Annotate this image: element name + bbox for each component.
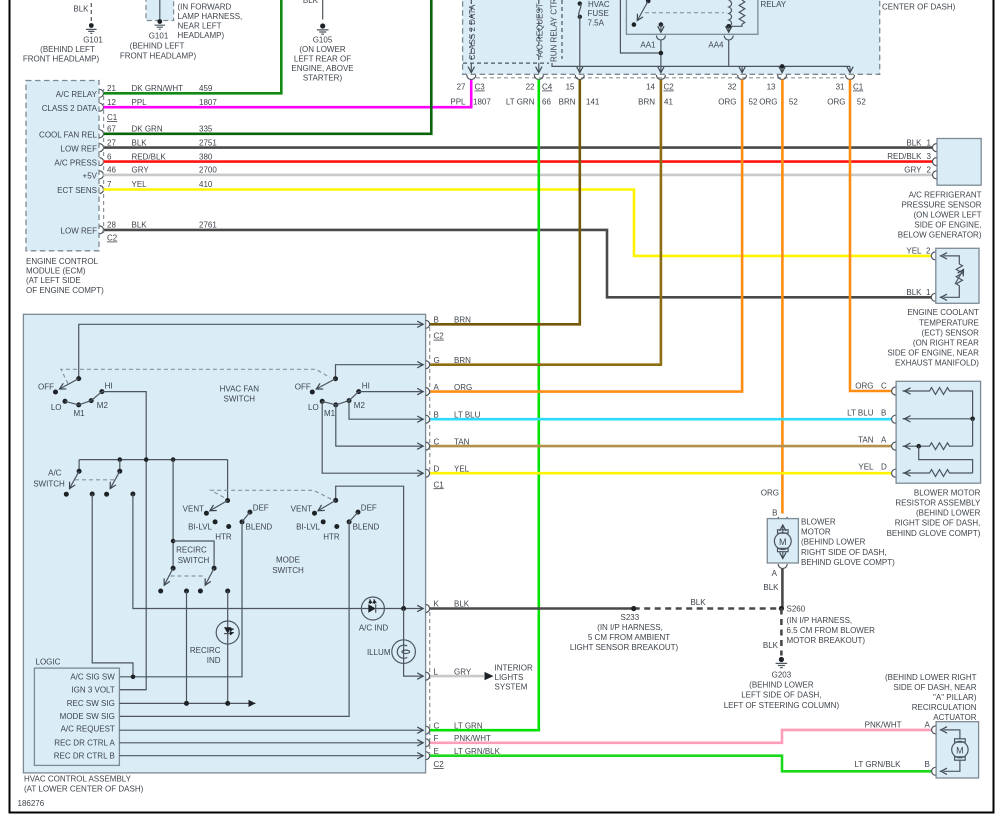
svg-text:66: 66 — [542, 98, 551, 107]
wire GRY 2700 (ECM pin 46 to pressure sensor pin 2) — [104, 174, 933, 177]
svg-text:IND: IND — [207, 656, 221, 665]
svg-text:ILLUM: ILLUM — [367, 648, 391, 657]
wire AA1 to pin 14 (with feed elbow from above) — [620, 0, 663, 73]
svg-text:BLEND: BLEND — [246, 523, 273, 532]
svg-text:22: 22 — [526, 83, 535, 92]
svg-text:15: 15 — [566, 83, 575, 92]
svg-text:SIDE OF ENGINE,: SIDE OF ENGINE, — [914, 221, 981, 230]
svg-text:L: L — [434, 667, 439, 676]
svg-text:32: 32 — [728, 83, 737, 92]
recirc switch — [158, 546, 230, 594]
svg-text:12: 12 — [107, 98, 116, 107]
svg-text:C4: C4 — [542, 83, 553, 92]
svg-text:A/C REQUEST: A/C REQUEST — [61, 725, 115, 734]
recirc indicator lamp — [190, 621, 239, 665]
svg-text:HI: HI — [105, 382, 113, 391]
svg-text:SIDE OF ENGINE, NEAR: SIDE OF ENGINE, NEAR — [887, 349, 979, 358]
svg-text:A/C IND: A/C IND — [359, 624, 389, 633]
svg-text:(BEHIND LOWER: (BEHIND LOWER — [749, 681, 814, 690]
splice S233 — [570, 606, 679, 652]
net CLASS 2 DATA (dashed lead and label) — [468, 0, 477, 73]
svg-text:BI-LVL: BI-LVL — [296, 523, 320, 532]
svg-text:BLK: BLK — [690, 598, 706, 607]
wire DK GRN 335 (ECM pin 67 to top) — [104, 0, 432, 134]
svg-text:1: 1 — [926, 288, 931, 297]
A/C switch — [33, 460, 135, 497]
svg-text:REC DR CTRL A: REC DR CTRL A — [54, 738, 115, 747]
svg-text:SIDE OF DASH, NEAR: SIDE OF DASH, NEAR — [893, 683, 976, 692]
svg-text:C1: C1 — [434, 480, 445, 489]
recirc switch feed — [171, 460, 214, 569]
wire TAN (HVAC pin C to resistor pin A) — [430, 445, 892, 448]
A/C switch contact to A/C indicator row (pin K) — [133, 494, 423, 609]
svg-text:GRY: GRY — [454, 667, 472, 676]
fan switch 2 M1 to pin C — [336, 405, 423, 446]
svg-text:1: 1 — [927, 138, 932, 147]
svg-text:6.5 CM FROM BLOWER: 6.5 CM FROM BLOWER — [787, 626, 876, 635]
connector bump AA1 — [656, 36, 665, 41]
svg-text:C2: C2 — [434, 760, 445, 769]
svg-text:+5V: +5V — [83, 172, 98, 181]
svg-text:A/C REQUEST: A/C REQUEST — [536, 3, 545, 57]
svg-text:FRONT HEADLAMP): FRONT HEADLAMP) — [23, 55, 100, 64]
svg-text:D: D — [881, 463, 887, 472]
fan switch gang dashed link — [61, 369, 330, 384]
ECT internal wiring and thermistor — [944, 256, 960, 264]
svg-text:ACTUATOR: ACTUATOR — [933, 713, 976, 722]
svg-text:52: 52 — [789, 98, 798, 107]
wire BLK 2761 (ECM pin 28 to ECT sensor pin 1) — [104, 230, 932, 297]
svg-text:SWITCH: SWITCH — [178, 556, 210, 565]
svg-text:BLK: BLK — [73, 5, 89, 14]
fan switch 2 M2 to pin B — [349, 401, 423, 420]
svg-text:BEHIND GLOVE COMPT): BEHIND GLOVE COMPT) — [887, 529, 981, 538]
svg-text:ORG: ORG — [454, 383, 472, 392]
run relay ctrl bus to pins 32 13 31 — [552, 63, 850, 73]
svg-text:(IN FORWARD: (IN FORWARD — [178, 3, 232, 12]
ground G203 — [724, 657, 840, 710]
svg-text:IGN 3 VOLT: IGN 3 VOLT — [71, 685, 115, 694]
wire ORG 52 (pin 32 to HVAC pin A) — [430, 80, 742, 392]
svg-text:M2: M2 — [354, 401, 366, 410]
svg-text:RELAY: RELAY — [761, 0, 787, 9]
LOGIC box — [34, 658, 119, 766]
ground G105 — [291, 0, 353, 83]
svg-text:FRONT HEADLAMP): FRONT HEADLAMP) — [120, 52, 197, 61]
svg-text:LT BLU: LT BLU — [454, 410, 481, 419]
wire YEL 410 (ECM pin 7 to ECT sensor pin 2) — [104, 190, 932, 256]
svg-text:LIGHT SENSOR BREAKOUT): LIGHT SENSOR BREAKOUT) — [570, 643, 679, 652]
svg-text:SWITCH: SWITCH — [224, 395, 256, 404]
svg-text:CENTER OF DASH): CENTER OF DASH) — [882, 3, 956, 12]
svg-text:HVAC FAN: HVAC FAN — [220, 384, 260, 393]
svg-text:S233: S233 — [621, 613, 640, 622]
svg-text:AA4: AA4 — [708, 41, 724, 50]
svg-text:LT GRN: LT GRN — [454, 721, 483, 730]
svg-text:141: 141 — [586, 98, 600, 107]
blower motor resistor assembly box — [847, 381, 981, 538]
svg-text:RED/BLK: RED/BLK — [132, 152, 167, 161]
svg-text:FUSE: FUSE — [588, 9, 609, 18]
fuse HVAC FUSE 7.5A — [578, 0, 610, 28]
svg-text:G: G — [434, 356, 440, 365]
relay actuation dashed link — [645, 12, 724, 14]
splice S260 — [779, 605, 875, 645]
svg-text:C: C — [881, 381, 887, 390]
svg-text:1807: 1807 — [199, 98, 217, 107]
mode switch 1 BLEND output to A/C SIG SW — [120, 522, 242, 677]
svg-text:7.5A: 7.5A — [588, 19, 605, 28]
fuse block pin bumps — [467, 75, 855, 80]
A/C indicator lamp — [359, 597, 389, 633]
mode switch 2 feed from K row junction — [336, 486, 404, 608]
svg-text:NEAR LEFT: NEAR LEFT — [178, 22, 222, 31]
svg-text:21: 21 — [107, 84, 116, 93]
fuse block connector face dashed line — [476, 77, 846, 79]
svg-text:YEL: YEL — [906, 247, 922, 256]
svg-text:C1: C1 — [107, 113, 118, 122]
svg-text:CLASS 2 DATA: CLASS 2 DATA — [42, 104, 98, 113]
ECM connector face dashed line — [103, 89, 105, 235]
svg-text:LOW REF: LOW REF — [61, 227, 98, 236]
svg-text:ORG: ORG — [759, 98, 777, 107]
svg-text:(IN I/P HARNESS,: (IN I/P HARNESS, — [597, 623, 663, 632]
svg-text:BLK: BLK — [303, 0, 319, 5]
svg-text:INTERIOR: INTERIOR — [495, 663, 533, 672]
svg-text:C3: C3 — [475, 83, 486, 92]
blower motor — [761, 489, 895, 593]
wire BLK dashed (S260 to G203) — [780, 609, 783, 656]
svg-text:LOGIC: LOGIC — [36, 658, 61, 667]
svg-text:BRN: BRN — [559, 98, 576, 107]
fan switch 2 — [295, 376, 370, 418]
svg-text:OFF: OFF — [295, 382, 311, 391]
ECM connector box — [26, 81, 104, 295]
svg-text:PNK/WHT: PNK/WHT — [454, 734, 491, 743]
svg-text:RIGHT SIDE OF DASH,: RIGHT SIDE OF DASH, — [895, 519, 981, 528]
wire LT GRN/BLK (HVAC pin E to recirculation actuator pin B) — [430, 756, 932, 772]
svg-text:46: 46 — [107, 166, 116, 175]
svg-text:RECIRCULATION: RECIRCULATION — [912, 703, 977, 712]
svg-text:BLK: BLK — [763, 641, 779, 650]
svg-text:MODE: MODE — [276, 556, 300, 565]
REC DR CTRL A row to pin F — [119, 742, 423, 744]
svg-text:G105: G105 — [313, 36, 333, 45]
svg-text:ENGINE CONTROL: ENGINE CONTROL — [26, 257, 99, 266]
svg-text:B: B — [772, 509, 777, 518]
wire PPL 1807 (ECM pin 12 to C3 pin 27) — [104, 80, 472, 108]
svg-text:14: 14 — [646, 83, 655, 92]
ground G101 (left) — [23, 3, 103, 64]
fan switch 1 — [38, 376, 113, 418]
svg-text:(BEHIND LOWER: (BEHIND LOWER — [916, 509, 981, 518]
svg-text:52: 52 — [857, 98, 866, 107]
svg-text:"A" PILLAR): "A" PILLAR) — [933, 693, 977, 702]
svg-text:YEL: YEL — [858, 463, 874, 472]
wire BRN 41 (pin 14 to HVAC pin G) — [430, 80, 661, 365]
svg-text:M: M — [956, 745, 964, 755]
svg-text:27: 27 — [457, 83, 466, 92]
svg-text:VENT: VENT — [291, 505, 312, 514]
fan switch 2 feed wire (pin G row) — [336, 365, 424, 379]
svg-text:BRN: BRN — [454, 316, 471, 325]
inner dashed partition (data link region) — [463, 62, 549, 64]
REC SW SIG row with arrow — [119, 701, 255, 706]
svg-text:A/C RELAY: A/C RELAY — [56, 90, 98, 99]
svg-text:B: B — [881, 409, 886, 418]
svg-text:410: 410 — [199, 180, 213, 189]
ground G101 (in forward lamp harness) — [120, 0, 242, 61]
wire L GRY to interior lights system — [430, 663, 533, 691]
relay switch output to AA1 — [660, 25, 662, 33]
net A/C REQUEST (dashed lead and label) — [536, 0, 545, 73]
svg-text:LT GRN/BLK: LT GRN/BLK — [855, 760, 902, 769]
svg-text:2751: 2751 — [199, 138, 217, 147]
svg-text:HTR: HTR — [215, 533, 232, 542]
HVAC control assembly box — [23, 314, 425, 793]
svg-text:(ON LOWER LEFT: (ON LOWER LEFT — [913, 211, 981, 220]
wire AA4 down to run-relay bus — [728, 40, 730, 66]
svg-text:HTR: HTR — [323, 533, 340, 542]
svg-text:AA1: AA1 — [640, 41, 656, 50]
A/C REQUEST row to pin C — [119, 729, 423, 731]
svg-text:BLK: BLK — [132, 221, 148, 230]
wire LT BLU (HVAC pin B to resistor pin B) — [430, 418, 892, 421]
svg-text:OFF: OFF — [38, 382, 54, 391]
wire YEL (HVAC pin D to resistor pin D) — [430, 472, 892, 475]
svg-text:RESISTOR ASSEMBLY: RESISTOR ASSEMBLY — [895, 499, 981, 508]
svg-text:STARTER): STARTER) — [303, 74, 343, 83]
fan switch 1 feed wire (pin B row) — [79, 324, 424, 378]
relay coil — [726, 0, 744, 29]
svg-text:LEFT REAR OF: LEFT REAR OF — [294, 55, 351, 64]
mode switch 1 — [183, 498, 273, 542]
svg-text:380: 380 — [199, 152, 213, 161]
svg-text:BLOWER: BLOWER — [801, 518, 836, 527]
svg-text:BLEND: BLEND — [353, 523, 380, 532]
svg-text:MOTOR: MOTOR — [801, 528, 831, 537]
svg-text:BLK: BLK — [132, 138, 148, 147]
svg-text:RECIRC: RECIRC — [190, 646, 221, 655]
svg-text:SYSTEM: SYSTEM — [495, 683, 528, 692]
svg-text:M1: M1 — [73, 409, 85, 418]
resistor row A — [903, 443, 973, 450]
svg-text:B: B — [434, 316, 439, 325]
fan switch 1 HI output down to feed bus — [102, 392, 146, 690]
svg-text:DK GRN/WHT: DK GRN/WHT — [132, 84, 184, 93]
svg-text:31: 31 — [836, 83, 845, 92]
svg-text:LO: LO — [308, 403, 319, 412]
fan switch 2 HI to pin A — [359, 391, 424, 393]
resistor row D — [903, 470, 973, 477]
svg-text:LT GRN: LT GRN — [506, 98, 535, 107]
HVAC pin bumps right edge — [426, 320, 430, 759]
svg-text:B: B — [925, 760, 930, 769]
feed bus row — [79, 457, 228, 462]
svg-text:HVAC: HVAC — [588, 0, 610, 9]
svg-text:ORG: ORG — [761, 489, 779, 498]
svg-text:(BEHIND LOWER: (BEHIND LOWER — [801, 538, 866, 547]
wire PNK/WHT (HVAC pin F to recirculation actuator pin A) — [430, 730, 932, 743]
illumination lamp to pin L — [404, 663, 424, 676]
svg-text:(ON RIGHT REAR: (ON RIGHT REAR — [913, 339, 979, 348]
wire BLK dashed (S233 to S260) — [634, 607, 782, 610]
svg-text:A: A — [881, 436, 887, 445]
REC DR CTRL B row to pin E — [119, 755, 423, 757]
svg-text:BLK: BLK — [906, 138, 922, 147]
svg-text:TEMPERATURE: TEMPERATURE — [919, 318, 979, 327]
svg-text:5 CM FROM AMBIENT: 5 CM FROM AMBIENT — [588, 633, 670, 642]
svg-text:6: 6 — [107, 152, 112, 161]
svg-text:M1: M1 — [324, 409, 336, 418]
svg-text:A/C PRESS: A/C PRESS — [54, 158, 97, 167]
svg-text:67: 67 — [107, 125, 116, 134]
svg-text:S260: S260 — [787, 605, 806, 614]
svg-text:RUN RELAY CTRL: RUN RELAY CTRL — [550, 0, 559, 62]
svg-text:HEADLAMP): HEADLAMP) — [178, 31, 225, 40]
svg-text:PPL: PPL — [450, 98, 466, 107]
svg-text:MODE SW SIG: MODE SW SIG — [60, 712, 115, 721]
svg-text:CLASS 2 DATA: CLASS 2 DATA — [468, 4, 477, 60]
svg-text:LEFT SIDE OF DASH,: LEFT SIDE OF DASH, — [741, 691, 821, 700]
svg-text:A/C REFRIGERANT: A/C REFRIGERANT — [909, 190, 982, 199]
svg-text:LIGHTS: LIGHTS — [495, 673, 524, 682]
svg-text:BLK: BLK — [906, 288, 922, 297]
wire K row junction down to illumination lamp — [403, 609, 405, 642]
svg-text:2761: 2761 — [199, 221, 217, 230]
mode switch 2 — [291, 498, 380, 542]
svg-text:(AT LEFT SIDE: (AT LEFT SIDE — [26, 276, 81, 285]
junction on A/C indicator row — [401, 606, 406, 611]
svg-text:(BEHIND LEFT: (BEHIND LEFT — [40, 45, 95, 54]
svg-text:G101: G101 — [83, 36, 103, 45]
svg-text:A: A — [925, 720, 931, 729]
svg-text:DK GRN: DK GRN — [132, 125, 163, 134]
svg-text:RECIRC: RECIRC — [176, 546, 207, 555]
resistor row C — [903, 388, 973, 419]
svg-text:A/C SIG SW: A/C SIG SW — [70, 672, 115, 681]
ECM pin bumps — [100, 89, 104, 234]
svg-text:VENT: VENT — [183, 505, 204, 514]
svg-text:C2: C2 — [434, 332, 445, 341]
svg-text:ENGINE COOLANT: ENGINE COOLANT — [907, 308, 979, 317]
svg-text:RIGHT SIDE OF DASH,: RIGHT SIDE OF DASH, — [801, 548, 887, 557]
svg-text:LEFT OF STEERING COLUMN): LEFT OF STEERING COLUMN) — [724, 701, 840, 710]
connector bump AA4 — [724, 36, 733, 41]
svg-text:K: K — [434, 600, 440, 609]
svg-text:2: 2 — [927, 165, 932, 174]
svg-text:E: E — [434, 747, 439, 756]
svg-text:ORG: ORG — [718, 98, 736, 107]
svg-text:MOTOR BREAKOUT): MOTOR BREAKOUT) — [787, 636, 866, 645]
svg-text:G203: G203 — [772, 671, 792, 680]
svg-text:HI: HI — [362, 382, 370, 391]
svg-text:3: 3 — [927, 152, 932, 161]
svg-text:52: 52 — [749, 98, 758, 107]
wire LT GRN 66 (pin 22 to HVAC pin C) — [430, 80, 539, 731]
wire fuse output to pin 15 — [579, 17, 581, 73]
engine coolant temperature (ECT) sensor box — [887, 247, 979, 368]
svg-text:BLK: BLK — [763, 583, 779, 592]
svg-text:BRN: BRN — [638, 98, 655, 107]
svg-text:EXHAUST MANIFOLD): EXHAUST MANIFOLD) — [895, 359, 979, 368]
wire BLK 2751 (ECM pin 27 to pressure sensor pin 1) — [104, 146, 933, 149]
svg-text:D: D — [434, 464, 440, 473]
A/C refrigerant pressure sensor box — [887, 138, 982, 239]
svg-text:YEL: YEL — [454, 464, 470, 473]
svg-text:(BEHIND LEFT: (BEHIND LEFT — [130, 42, 185, 51]
wire ORG 52 (pin 31 to blower resistor pin C) — [850, 80, 892, 392]
wire ORG 52 (pin 13 to blower motor pin B) — [781, 80, 784, 514]
svg-text:13: 13 — [767, 83, 776, 92]
svg-text:C2: C2 — [107, 234, 118, 243]
HVAC pin letter and wire labels — [434, 316, 501, 770]
svg-text:BI-LVL: BI-LVL — [188, 523, 212, 532]
svg-text:LT BLU: LT BLU — [847, 409, 874, 418]
svg-text:(BEHIND LOWER RIGHT: (BEHIND LOWER RIGHT — [885, 673, 977, 682]
svg-text:YEL: YEL — [132, 180, 148, 189]
svg-text:41: 41 — [664, 98, 673, 107]
svg-text:M2: M2 — [97, 401, 109, 410]
svg-text:OF ENGINE COMPT): OF ENGINE COMPT) — [26, 286, 104, 295]
svg-text:DEF: DEF — [361, 504, 377, 513]
svg-text:(IN I/P HARNESS,: (IN I/P HARNESS, — [787, 616, 853, 625]
svg-text:MODULE (ECM): MODULE (ECM) — [26, 267, 86, 276]
svg-text:TAN: TAN — [858, 436, 874, 445]
svg-text:PRESSURE SENSOR: PRESSURE SENSOR — [901, 200, 981, 209]
svg-text:27: 27 — [107, 138, 116, 147]
svg-text:GRY: GRY — [132, 166, 150, 175]
wire DK GRN/WHT 459 (ECM pin 21 to top) — [104, 0, 282, 93]
svg-text:GRY: GRY — [904, 165, 922, 174]
svg-text:COOL FAN REL: COOL FAN REL — [39, 131, 97, 140]
svg-text:HVAC CONTROL ASSEMBLY: HVAC CONTROL ASSEMBLY — [24, 774, 132, 783]
svg-text:BLK: BLK — [454, 600, 470, 609]
svg-text:LT GRN/BLK: LT GRN/BLK — [454, 747, 501, 756]
svg-text:ECT SENS: ECT SENS — [57, 186, 97, 195]
svg-text:ORG: ORG — [827, 98, 845, 107]
svg-text:REC DR CTRL B: REC DR CTRL B — [54, 751, 115, 760]
svg-text:G101: G101 — [149, 32, 169, 41]
svg-text:C: C — [434, 721, 440, 730]
svg-text:(AT LOWER CENTER OF DASH): (AT LOWER CENTER OF DASH) — [24, 784, 144, 793]
svg-text:M: M — [779, 537, 787, 547]
svg-text:C: C — [434, 437, 440, 446]
IGN 3 VOLT row (from feed bus vertical) — [120, 689, 146, 691]
resistor row B wire — [903, 418, 973, 420]
recirculation actuator — [855, 673, 979, 778]
ECM pin number / wire / circuit labels — [107, 84, 217, 230]
wire BLK blower motor to S260 — [781, 569, 784, 609]
mode switch gang dashed link — [211, 490, 332, 499]
svg-text:28: 28 — [107, 221, 116, 230]
svg-text:TAN: TAN — [454, 437, 470, 446]
svg-text:A: A — [772, 569, 778, 578]
fuse block pin labels — [450, 83, 866, 107]
recirc switch outputs to REC SW SIG — [186, 591, 188, 703]
wire RED/BLK 380 (ECM pin 6 to pressure sensor pin 3) — [104, 160, 933, 163]
underhood fuse block box — [463, 0, 956, 74]
svg-text:459: 459 — [199, 84, 213, 93]
relay coil output to AA4 — [728, 26, 730, 32]
svg-text:ORG: ORG — [855, 381, 873, 390]
relay box — [626, 0, 758, 34]
svg-text:PNK/WHT: PNK/WHT — [865, 720, 902, 729]
svg-text:LAMP HARNESS,: LAMP HARNESS, — [178, 12, 243, 21]
net RUN RELAY CTRL (dashed lead and label) — [550, 0, 563, 62]
svg-text:2700: 2700 — [199, 166, 217, 175]
fan switch 2 LO to pin D — [322, 401, 423, 473]
